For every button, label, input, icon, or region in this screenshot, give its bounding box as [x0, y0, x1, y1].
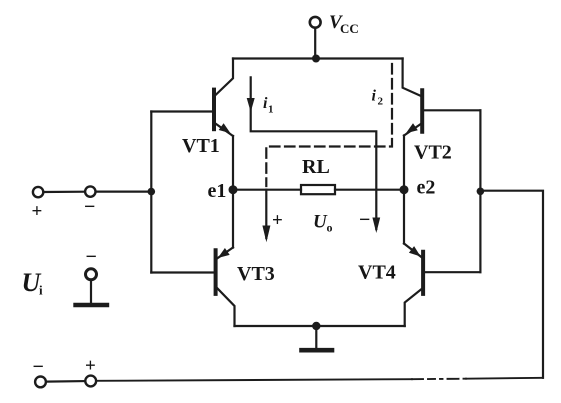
label Uo — [313, 212, 333, 235]
wire: VT3 base lead — [151, 271, 215, 273]
Vcc label — [329, 12, 359, 36]
wire: e2 vertical (VT2 emitter to VT4 emitter) — [403, 136, 405, 244]
svg-text:−: − — [359, 209, 370, 231]
svg-text:−: − — [84, 196, 95, 218]
svg-text:VT1: VT1 — [182, 135, 220, 157]
svg-text:−: − — [86, 246, 97, 268]
svg-text:2: 2 — [378, 96, 384, 108]
svg-text:1: 1 — [268, 104, 274, 116]
wire: right-side base bus (VT2 base to VT4 base) — [479, 110, 481, 272]
wire: input bus vertical — [150, 112, 152, 273]
input terminal row 1 — [33, 186, 151, 197]
wire: bottom return (left part) — [96, 379, 412, 381]
Ui ground terminal — [76, 269, 108, 305]
wire: VT1 base lead — [151, 110, 214, 112]
svg-text:+: + — [272, 210, 283, 231]
wire: e1 vertical (VT1 emitter to VT3 emitter) — [232, 136, 234, 248]
wire: e1 to RL — [233, 189, 301, 191]
wire: bottom return (scan-faded dashes) — [412, 378, 466, 381]
svg-text:i: i — [372, 88, 377, 105]
transistor VT4 — [404, 244, 423, 327]
ground — [302, 326, 333, 350]
svg-text:VT3: VT3 — [237, 263, 275, 285]
label i1 — [263, 95, 274, 116]
wire: top supply rail — [233, 57, 403, 59]
current path i2 (dashed) — [266, 64, 392, 186]
svg-text:e1: e1 — [208, 180, 227, 202]
node e2 — [400, 185, 409, 194]
transistor VT3 — [216, 248, 235, 327]
svg-text:e2: e2 — [417, 177, 436, 199]
node: input junction — [148, 188, 156, 196]
wire: right bus to feedback corner — [480, 191, 543, 378]
svg-text:RL: RL — [302, 156, 330, 178]
transistor VT1 — [214, 59, 233, 137]
node: right bus junction — [477, 188, 485, 196]
label Ui — [22, 268, 44, 298]
wire: VT4 base lead — [423, 271, 480, 273]
wire: RL to e2 — [335, 189, 404, 191]
svg-text:+: + — [32, 201, 43, 222]
svg-text:CC: CC — [340, 21, 359, 36]
svg-text:+: + — [85, 356, 96, 377]
svg-text:−: − — [33, 356, 44, 378]
arrow: i2 path into Uo plus — [262, 190, 270, 243]
node e1 — [229, 185, 238, 194]
Vcc terminal — [310, 17, 321, 59]
svg-text:VT4: VT4 — [358, 262, 396, 284]
wire: bottom return (right part) — [466, 377, 543, 380]
svg-text:o: o — [327, 221, 333, 235]
svg-text:i: i — [39, 283, 43, 298]
svg-text:VT2: VT2 — [414, 142, 452, 164]
node: bottom rail junction — [312, 322, 320, 330]
current path i1 (solid with arrows) — [247, 77, 381, 233]
label i2 — [372, 88, 384, 108]
wire: VT2 base lead — [422, 109, 480, 111]
node: top rail junction — [312, 55, 320, 63]
resistor RL — [301, 185, 335, 194]
wire: bottom rail — [235, 325, 405, 327]
input terminal row 2 — [35, 376, 96, 388]
transistor VT2 — [403, 59, 423, 136]
